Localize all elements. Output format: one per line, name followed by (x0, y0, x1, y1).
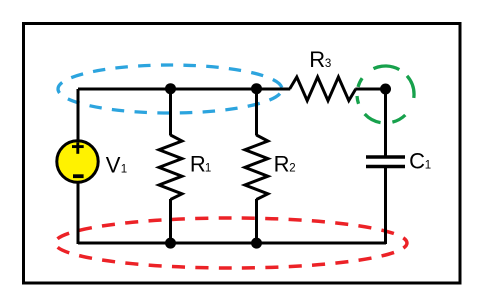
svg-text:1: 1 (205, 162, 211, 174)
wire: bottom net (78, 242, 386, 245)
resistor R1 (159, 89, 182, 243)
capacitor C1 (366, 89, 405, 244)
voltage source V1 (57, 141, 98, 182)
svg-text:1: 1 (121, 163, 127, 175)
border frame (24, 24, 461, 284)
svg-text:R: R (190, 151, 206, 176)
node ground (red dashed ellipse) (55, 218, 407, 268)
node out (green dashed circle) (357, 66, 414, 123)
node top (blue dashed ellipse) (58, 65, 282, 113)
junction dot: output node (380, 84, 391, 95)
wire: top net from V1 to R2 node (78, 88, 256, 91)
svg-text:2: 2 (289, 163, 295, 175)
resistor R3 (256, 77, 386, 101)
svg-text:R: R (309, 47, 325, 72)
junction dot: top of R1 (165, 83, 176, 94)
svg-text:C: C (409, 149, 425, 174)
svg-text:V: V (106, 152, 121, 177)
wire: V1 top lead (77, 89, 80, 140)
wire: V1 bottom lead (77, 182, 80, 244)
svg-text:R: R (274, 152, 290, 177)
junction dot: top of R2 (251, 83, 262, 94)
svg-text:3: 3 (325, 58, 331, 70)
junction dot: bottom of R2 (251, 238, 262, 249)
svg-text:1: 1 (425, 160, 431, 172)
resistor R2 (245, 89, 268, 243)
junction dot: bottom of R1 (165, 238, 176, 249)
